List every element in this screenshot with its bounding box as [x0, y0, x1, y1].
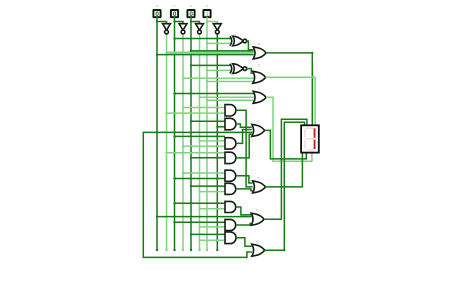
wire bus B [174, 17, 176, 250]
wire AND8 in2 [200, 226, 226, 228]
wire AND4 out to OR-d [236, 134, 252, 158]
segment c (on) [314, 140, 316, 149]
wire XNOR1 in2 [207, 42, 232, 44]
wire AND5 in2 [175, 178, 226, 180]
wire OR-b in1 [183, 77, 253, 79]
segment g (off) [306, 138, 314, 139]
AND gate A2 [225, 118, 236, 130]
wire AND9 out to OR-g [236, 238, 252, 246]
wire XNOR2 out to OR-b [247, 69, 253, 74]
inverter NOT at x=199.5 [196, 24, 204, 34]
AND gate A6 [225, 183, 236, 194]
AND gate A5 [225, 170, 236, 181]
wire segment g [265, 122, 305, 250]
wire segment b [266, 77, 316, 125]
svg-text:g: g [257, 239, 259, 244]
wire AND8 out to OR-f bot [236, 223, 251, 225]
wire segment c [266, 97, 312, 161]
wire end caps [156, 249, 219, 251]
wire AND8 in1 [175, 221, 226, 223]
AND gate A1 [225, 105, 236, 116]
wire jog pin to inverter [175, 22, 184, 24]
svg-text:d: d [257, 119, 259, 124]
wire bus D [206, 17, 208, 250]
wire AND2 out to OR-d [236, 124, 252, 127]
OR gate ORa [253, 47, 266, 59]
svg-text:c: c [258, 86, 260, 91]
segment d (off) [306, 149, 314, 150]
svg-text:c: c [190, 3, 192, 8]
wire AND7 in1 [175, 202, 226, 204]
wire AND4 in1 [167, 152, 226, 154]
wire OR-c in1 [175, 93, 254, 95]
AND gate A7 [225, 201, 236, 212]
segment b (on) [314, 128, 316, 137]
AND gate A3 [225, 138, 236, 149]
wire AND2 in2 from D-bar [217, 126, 225, 128]
wire left loop [143, 132, 252, 257]
wire bus B' [182, 34, 184, 250]
wire bus C [190, 17, 192, 250]
wire OR-c in3 [207, 99, 254, 101]
AND gate A9 [225, 232, 236, 244]
wire OR-f long in from A [157, 216, 252, 218]
AND gate A4 [225, 152, 236, 163]
wire OR-a in3 [157, 54, 254, 56]
wire OR-a in2 (bright pair) [167, 52, 254, 54]
wire bus D' [216, 34, 218, 250]
wire AND7 out to OR-f top [236, 207, 251, 215]
OR gate ORc [253, 91, 266, 103]
wire segment e [265, 153, 302, 187]
wire segment d [265, 130, 307, 159]
OR gate ORg [252, 244, 265, 256]
wire AND5 out to OR-e top [236, 176, 253, 183]
wire AND1 in1 [183, 107, 225, 109]
wire XNOR1 out to OR-a [247, 41, 254, 50]
XNOR gate X2 [230, 64, 247, 74]
7-segment display U1 [301, 125, 319, 152]
OR gate ORb [253, 71, 266, 83]
wire OR-a in1 [191, 50, 254, 52]
wire AND6 in1 [191, 185, 225, 187]
wire AND3 out to OR-d [236, 130, 252, 144]
inverter NOT at x=183 [179, 24, 187, 34]
wire segment f [264, 119, 307, 219]
XNOR gate X1 [230, 36, 247, 46]
wire AND1 out to OR-e mid [236, 110, 253, 187]
OR gate ORe [253, 181, 266, 193]
wire XNOR1 in1 [175, 38, 232, 40]
AND gate A8 [225, 219, 236, 230]
segment e (off) [304, 140, 305, 149]
segment f (off) [304, 129, 305, 138]
wire AND1 in2 [167, 112, 226, 114]
inverter NOT at x=217.3 [213, 24, 221, 34]
wire XNOR2 in1 [191, 64, 232, 66]
wire AND3 row3 [183, 145, 225, 147]
wire OR-c in2 [200, 96, 254, 98]
wire AND3 row1 [175, 135, 226, 137]
input pin 1 [153, 10, 160, 18]
wire bus A' [166, 34, 168, 250]
inverter NOT at x=166.5 [163, 24, 171, 34]
wire AND4 in2 [191, 157, 225, 159]
wire AND5 in1 [183, 172, 225, 174]
segment a (off) [306, 128, 314, 129]
wire bus A [156, 17, 158, 250]
wire AND6 in2 [200, 191, 226, 193]
wire AND2 in1 [191, 120, 225, 122]
wire AND7 in2 [200, 208, 226, 210]
wire OR-b in2 [207, 81, 253, 83]
wire AND9 in2 [200, 239, 226, 241]
wire jog pin to inverter [207, 22, 217, 24]
wire AND3 row2 [200, 140, 226, 142]
wire segment a [266, 53, 312, 125]
OR gate ORd [252, 124, 265, 136]
input pin 2 [171, 10, 178, 18]
wire bus C' [199, 34, 201, 250]
wire AND6 out to OR-e bot [236, 189, 253, 191]
OR gate ORf [251, 213, 264, 225]
wire jog pin to inverter [157, 22, 167, 24]
svg-text:d: d [206, 3, 208, 8]
wire XNOR2 in2 [207, 69, 232, 71]
wire jog pin to inverter [191, 22, 200, 24]
wire AND9 in1 [191, 233, 225, 235]
input pin 3 [187, 10, 194, 18]
input pin 4 [203, 10, 210, 18]
